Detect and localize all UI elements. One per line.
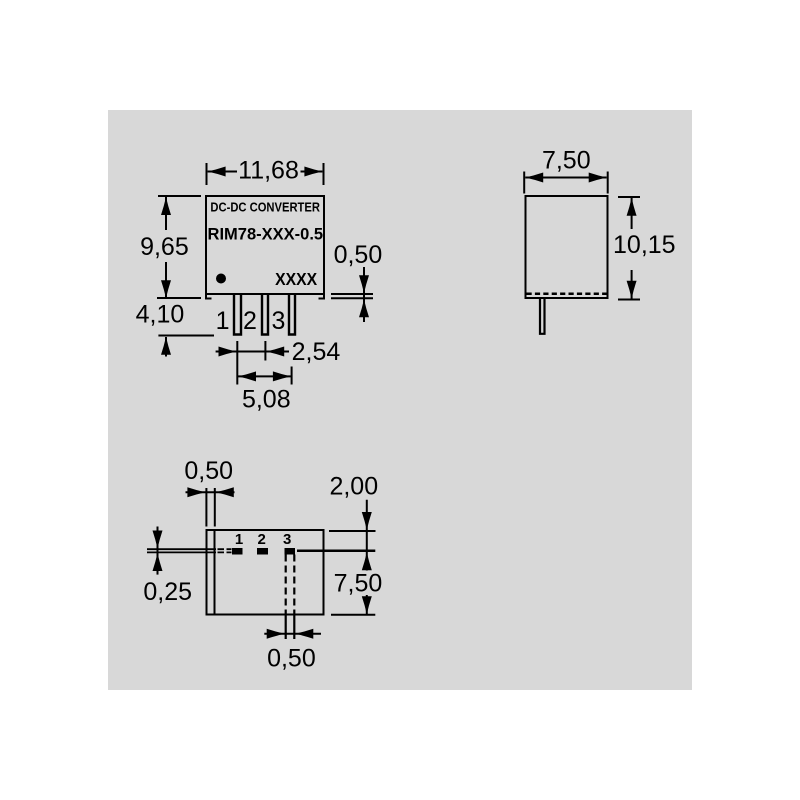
svg-text:11,68: 11,68: [238, 156, 299, 184]
svg-text:1: 1: [216, 307, 230, 335]
svg-text:5,08: 5,08: [242, 386, 291, 414]
svg-text:RIM78-XXX-0.5: RIM78-XXX-0.5: [208, 226, 324, 244]
svg-text:7,50: 7,50: [542, 146, 591, 174]
svg-text:XXXX: XXXX: [275, 269, 318, 289]
svg-text:2: 2: [243, 307, 257, 335]
svg-text:1: 1: [235, 531, 243, 548]
svg-text:10,15: 10,15: [613, 231, 676, 259]
svg-text:0,25: 0,25: [143, 578, 192, 606]
svg-text:2,54: 2,54: [292, 338, 341, 366]
svg-text:0,50: 0,50: [184, 457, 233, 485]
svg-text:DC-DC CONVERTER: DC-DC CONVERTER: [210, 200, 320, 215]
svg-text:3: 3: [271, 307, 285, 335]
svg-text:0,50: 0,50: [267, 644, 316, 672]
svg-text:2,00: 2,00: [329, 472, 378, 500]
svg-text:3: 3: [283, 531, 291, 548]
svg-text:9,65: 9,65: [140, 233, 189, 261]
svg-text:4,10: 4,10: [136, 301, 185, 329]
svg-text:0,50: 0,50: [334, 241, 383, 269]
svg-text:7,50: 7,50: [334, 569, 383, 597]
svg-text:2: 2: [258, 531, 266, 548]
